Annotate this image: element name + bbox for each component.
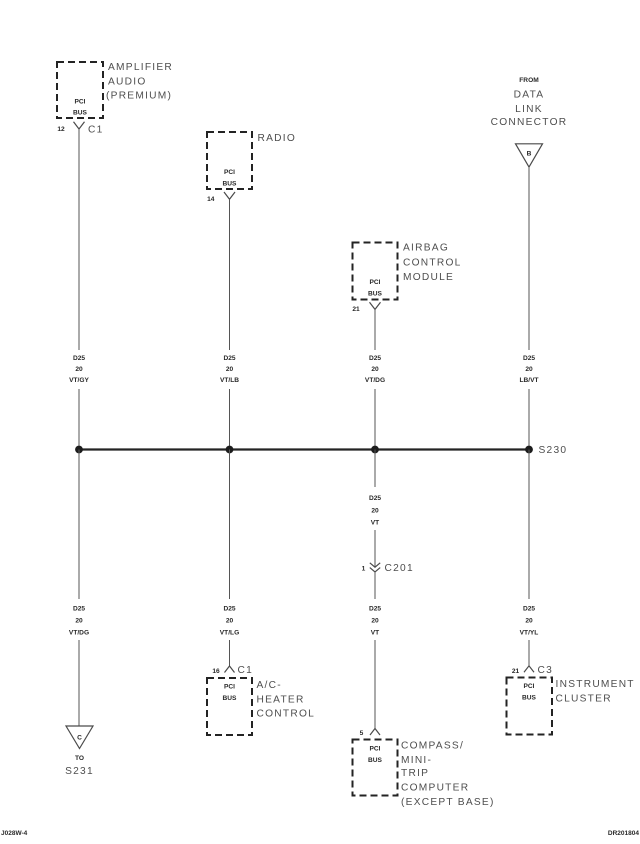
svg-text:D25: D25 <box>369 606 381 613</box>
svg-text:PCI: PCI <box>224 683 235 690</box>
svg-text:LINK: LINK <box>515 104 543 115</box>
wire col4: connector B to label <box>528 167 530 350</box>
svg-text:VT/LG: VT/LG <box>220 630 239 637</box>
wire col3: label to compass computer <box>374 640 376 729</box>
svg-text:RADIO: RADIO <box>258 133 297 144</box>
svg-text:C201: C201 <box>385 563 414 574</box>
wire col3: airbag to label <box>374 309 376 350</box>
svg-text:COMPUTER: COMPUTER <box>401 783 469 794</box>
svg-text:20: 20 <box>226 366 234 373</box>
junction dot col1 <box>75 446 83 454</box>
svg-text:C3: C3 <box>538 665 554 676</box>
svg-text:D25: D25 <box>73 355 85 362</box>
svg-text:BUS: BUS <box>368 757 383 764</box>
svg-text:1: 1 <box>362 565 366 572</box>
svg-text:CLUSTER: CLUSTER <box>556 693 612 704</box>
svg-text:J028W-4: J028W-4 <box>1 830 28 837</box>
wire label D25 20 VT/LB <box>220 355 239 384</box>
svg-text:CONTROL: CONTROL <box>257 709 316 720</box>
wire label D25 20 VT/YL <box>520 606 539 637</box>
svg-text:B: B <box>527 151 532 158</box>
svg-text:TRIP: TRIP <box>401 768 429 779</box>
component A/C heater control box <box>207 678 315 735</box>
svg-text:12: 12 <box>57 126 65 133</box>
wire col1: amplifier to label <box>78 129 80 350</box>
junction dot col4 <box>525 446 533 454</box>
svg-text:AIRBAG: AIRBAG <box>403 243 449 254</box>
svg-text:MINI-: MINI- <box>401 755 432 766</box>
svg-text:FROM: FROM <box>519 77 539 84</box>
svg-text:C1: C1 <box>88 124 104 135</box>
svg-text:20: 20 <box>371 618 379 625</box>
wire col4: label to splice S230 <box>528 389 530 450</box>
wire col4: label to instrument cluster <box>528 640 530 666</box>
off-page connector B <box>516 144 543 167</box>
svg-text:LB/VT: LB/VT <box>519 377 538 384</box>
svg-text:C: C <box>77 735 82 742</box>
svg-text:S231: S231 <box>65 766 94 777</box>
svg-text:16: 16 <box>212 668 220 675</box>
wire col3: C201 to label <box>374 572 376 599</box>
wire label D25 20 VT/DG lower <box>69 606 89 637</box>
component amplifier audio (premium) box <box>57 62 173 118</box>
component airbag control module box <box>353 243 462 300</box>
off-page connector C to S231 <box>65 726 94 777</box>
svg-text:D25: D25 <box>523 606 535 613</box>
svg-text:VT: VT <box>371 520 379 527</box>
wire col1: label to off-page C <box>78 640 80 726</box>
svg-text:21: 21 <box>512 668 520 675</box>
svg-text:VT: VT <box>371 630 379 637</box>
wire col3: label to C201 <box>374 530 376 567</box>
svg-text:(EXCEPT BASE): (EXCEPT BASE) <box>401 797 495 808</box>
connector at radio <box>224 192 235 199</box>
svg-text:14: 14 <box>207 196 215 203</box>
junction dot col2 <box>226 446 234 454</box>
svg-text:D25: D25 <box>223 606 235 613</box>
wire col1: splice to label <box>78 450 80 600</box>
svg-text:20: 20 <box>371 508 379 515</box>
svg-text:PCI: PCI <box>524 683 535 690</box>
svg-text:BUS: BUS <box>73 109 88 116</box>
svg-text:DR201804: DR201804 <box>608 830 639 837</box>
svg-text:BUS: BUS <box>223 181 238 188</box>
svg-text:20: 20 <box>525 618 533 625</box>
wire col2: label to A/C heater control <box>229 640 231 666</box>
wire label D25 20 VT/DG <box>365 355 385 384</box>
wire col3: label to splice S230 <box>374 389 376 450</box>
junction dot col3 <box>371 446 379 454</box>
wire col3: splice to label <box>374 450 376 488</box>
svg-text:C1: C1 <box>238 665 254 676</box>
svg-text:BUS: BUS <box>223 695 238 702</box>
wire col4: splice to label <box>528 450 530 600</box>
svg-text:D25: D25 <box>369 355 381 362</box>
svg-text:VT/LB: VT/LB <box>220 377 239 384</box>
bus wire S230 <box>79 448 529 450</box>
svg-text:20: 20 <box>525 366 533 373</box>
svg-text:AUDIO: AUDIO <box>108 77 147 88</box>
svg-text:S230: S230 <box>539 445 568 456</box>
wire col2: radio to label <box>229 199 231 350</box>
svg-text:(PREMIUM): (PREMIUM) <box>106 91 172 102</box>
svg-text:PCI: PCI <box>370 745 381 752</box>
svg-text:PCI: PCI <box>75 98 86 105</box>
svg-text:20: 20 <box>75 618 83 625</box>
svg-text:20: 20 <box>226 618 234 625</box>
wire label D25 20 LB/VT <box>519 355 538 384</box>
svg-text:CONTROL: CONTROL <box>403 258 462 269</box>
wire col2: label to splice S230 <box>229 389 231 450</box>
connector at compass computer <box>370 729 380 736</box>
wire label D25 20 VT/GY <box>69 355 89 384</box>
connector C1 at A/C heater control <box>225 665 254 676</box>
in-line connector C201 <box>370 563 414 574</box>
svg-text:5: 5 <box>360 730 364 737</box>
connector C3 at instrument cluster <box>524 665 553 676</box>
component radio box <box>207 132 296 189</box>
svg-text:D25: D25 <box>369 495 381 502</box>
connector at airbag <box>370 302 381 309</box>
wire col2: splice to label <box>229 450 231 600</box>
svg-text:VT/YL: VT/YL <box>520 630 539 637</box>
svg-text:DATA: DATA <box>514 90 545 101</box>
svg-text:PCI: PCI <box>370 279 381 286</box>
svg-text:AMPLIFIER: AMPLIFIER <box>108 62 173 73</box>
svg-text:21: 21 <box>352 306 360 313</box>
svg-text:20: 20 <box>371 366 379 373</box>
svg-text:MODULE: MODULE <box>403 272 454 283</box>
svg-text:D25: D25 <box>73 606 85 613</box>
svg-text:BUS: BUS <box>522 695 537 702</box>
wire col1: label to splice S230 <box>78 389 80 450</box>
svg-text:BUS: BUS <box>368 291 383 298</box>
wire label D25 20 VT lower <box>369 606 381 637</box>
svg-text:CONNECTOR: CONNECTOR <box>491 117 568 128</box>
connector C1 at amplifier <box>74 122 104 136</box>
svg-text:VT/DG: VT/DG <box>69 630 89 637</box>
svg-text:VT/DG: VT/DG <box>365 377 385 384</box>
wire label D25 20 VT upper <box>369 495 381 527</box>
component instrument cluster box <box>507 678 635 735</box>
svg-text:A/C-: A/C- <box>257 680 282 691</box>
component compass mini-trip computer box <box>353 740 495 808</box>
svg-text:PCI: PCI <box>224 169 235 176</box>
node FROM DATA LINK CONNECTOR <box>491 77 568 128</box>
svg-text:VT/GY: VT/GY <box>69 377 89 384</box>
svg-text:20: 20 <box>75 366 83 373</box>
wire label D25 20 VT/LG <box>220 606 239 637</box>
svg-text:D25: D25 <box>523 355 535 362</box>
svg-text:D25: D25 <box>223 355 235 362</box>
svg-text:INSTRUMENT: INSTRUMENT <box>556 679 635 690</box>
svg-text:HEATER: HEATER <box>257 694 305 705</box>
svg-text:COMPASS/: COMPASS/ <box>401 741 464 752</box>
svg-text:TO: TO <box>75 755 84 762</box>
